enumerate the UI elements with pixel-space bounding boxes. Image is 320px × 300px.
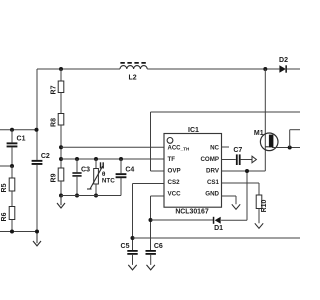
svg-text:C3: C3 [81,167,90,174]
svg-text:TF: TF [168,156,176,163]
svg-text:R5: R5 [1,183,8,192]
svg-text:CS2: CS2 [168,179,181,186]
svg-text:C6: C6 [154,243,163,250]
svg-text:GND: GND [205,191,219,198]
svg-text:C1: C1 [17,136,26,143]
svg-text:NTC: NTC [102,178,115,185]
svg-text:R10: R10 [261,199,268,212]
svg-text:NCL30167: NCL30167 [175,209,208,216]
svg-text:C7: C7 [233,147,242,154]
svg-text:D1: D1 [214,225,223,232]
svg-text:R9: R9 [50,173,57,182]
svg-text:IC1: IC1 [188,127,199,134]
svg-text:R6: R6 [1,212,8,221]
svg-text:L2: L2 [129,75,137,82]
svg-text:OVP: OVP [168,168,181,175]
svg-text:C4: C4 [125,166,134,173]
svg-text:NC: NC [210,145,219,152]
svg-text:R8: R8 [50,118,57,127]
svg-text:CS1: CS1 [207,179,220,186]
svg-text:R7: R7 [50,85,57,94]
svg-text:M1: M1 [254,130,264,137]
svg-text:DRV: DRV [206,168,220,175]
svg-text:C2: C2 [41,153,50,160]
svg-text:C5: C5 [121,243,130,250]
svg-text:D2: D2 [279,57,288,64]
svg-text:COMP: COMP [200,156,219,163]
svg-text:ACC_TH: ACC_TH [168,146,190,152]
svg-text:VCC: VCC [168,191,182,198]
